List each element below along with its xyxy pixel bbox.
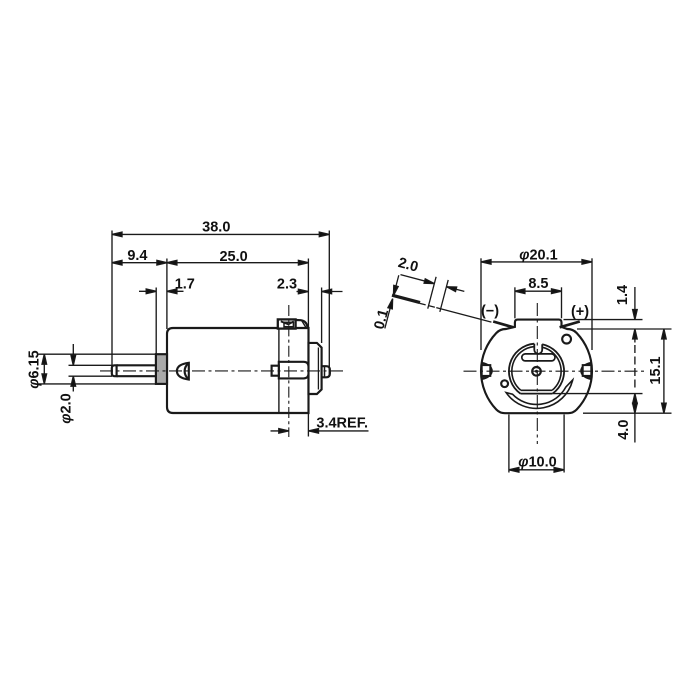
svg-text:1.7: 1.7 [175,277,195,293]
motor can body [167,328,309,413]
shaft [117,364,156,366]
ext line ring flat right [554,393,643,395]
bearing ring inner flat chord [521,389,552,391]
ext line can front face [166,259,168,330]
terminal support chamfer line [302,320,307,327]
motor end outline (flat-sided can with top plateau) [481,320,592,414]
shaft dome pip inside can [177,363,189,380]
vertical centerline [536,303,538,444]
dim phi2.0 lower [72,376,74,391]
left tab hole [482,365,491,376]
dim 3.4REF right tail [309,430,369,432]
dim 2.0 right tail [446,287,464,292]
terminal centerline vertical [288,305,290,437]
ext line phi10 left [508,415,510,473]
label 0.1 [372,308,393,332]
dim 15.1 [663,329,665,413]
rear bearing boss [279,362,309,379]
dim line 25.0 [167,262,309,264]
keyway slot at ring top [534,344,542,354]
ext line can rear face lower [307,414,309,437]
ext line shaft tip [111,231,113,377]
svg-text:8.5: 8.5 [528,276,548,292]
dim line 9.4 [112,262,167,264]
bearing ring outer circle right arc [542,344,564,393]
ext line can rear face [307,259,309,329]
tick 1 [428,277,436,309]
terminal chevron [281,321,294,324]
svg-text:2.3: 2.3 [277,277,297,293]
bottom vent arc band [506,380,573,409]
dim phi6.15 vertical [43,354,45,384]
boss stub [272,366,279,376]
terminal edge thick segment [392,295,420,302]
ext line rear pip tip [328,231,330,378]
dim 0.1 upper [393,275,398,295]
terminal (+) stroke [560,322,580,328]
svg-text:φ20.1: φ20.1 [519,247,557,263]
ext line bushing bottom [39,383,156,385]
left tab inner arc [482,365,491,377]
dim 3.4REF left tail [271,430,289,432]
right tab hole [583,365,592,376]
ext line 8.5 right [561,287,563,318]
right tab outer arc [581,363,591,379]
bearing ring inner circle left arc [512,347,534,391]
ext line shoulder right [577,328,672,330]
dim line phi10 [509,469,564,471]
bearing ring inner circle right arc [542,347,561,390]
ext line bottom flat right [583,412,672,414]
ext line phi20.1 left [480,258,482,350]
ext line plateau top right [564,319,643,321]
ext line shaft top [69,364,113,366]
dim line 8.5 [515,290,562,292]
svg-text:25.0: 25.0 [219,249,247,265]
terminal slot inner [284,322,293,326]
svg-text:φ6.15: φ6.15 [27,350,43,388]
dim 1.4 upper tail [634,287,636,320]
ext line bushing top [39,353,156,355]
terminal support shoulder [296,320,308,328]
dim 2.3 right tail [322,291,343,293]
svg-text:15.1: 15.1 [648,356,664,384]
ext line shaft bottom [69,375,113,377]
terminal thickness callout (2.0 / 0.1), rotated 14.7deg [372,253,502,357]
end cap junction line [278,329,280,413]
dim 1.7 left tail [139,290,156,292]
horizontal centerline [464,370,647,372]
leader line to terminal [436,308,491,322]
svg-text:9.4: 9.4 [127,248,147,264]
end cap inner edge line [317,348,319,390]
vent slot stadium [522,354,555,361]
ext line bushing face [155,288,157,355]
bearing bushing [156,354,167,384]
plastic end cap [309,343,322,394]
shaft tip [112,365,117,376]
ext line 8.5 left [514,287,516,318]
small hole top right [562,335,571,344]
dim 4.0 [634,394,636,443]
bearing ring outer circle left arc [509,344,534,394]
svg-text:1.4: 1.4 [615,285,631,305]
dim 2.0 left tail [400,275,434,284]
rear shaft pip [322,366,330,377]
left tab outer arc [482,363,492,379]
ext line phi10 right [563,415,565,473]
bearing ring outer flat chord [520,393,552,395]
shaft center dot [535,370,538,373]
dim phi2.0 upper [72,344,74,365]
rear pip chamfer line [324,366,326,377]
terminal edge dashed continuation [420,303,436,307]
terminal block on top of cap [278,319,296,328]
svg-text:38.0: 38.0 [202,220,230,236]
svg-text:(−): (−) [481,304,499,320]
dim line 38.0 [112,233,329,235]
horizontal centerline of side view [100,370,345,372]
svg-text:φ10.0: φ10.0 [518,454,556,470]
svg-text:(+): (+) [571,304,589,320]
ext line phi20.1 right [591,258,593,350]
small hole bottom left [501,380,508,387]
svg-text:3.4REF.: 3.4REF. [316,416,368,432]
construction dash line [634,345,636,390]
tick 2 [440,280,448,312]
dim 1.7 right tail [167,290,184,292]
dim 2.3 left tail [297,291,309,293]
dim line phi20.1 [481,261,592,263]
svg-text:4.0: 4.0 [616,420,632,440]
dim 0.1 lower [385,299,393,329]
dim 1.4 lower tail [634,329,636,343]
ext line cap face [321,288,323,344]
shaft center circle [532,367,541,376]
right tab inner arc [582,365,591,377]
svg-text:φ2.0: φ2.0 [58,393,74,423]
label 2.0 [396,255,420,276]
terminal (-) stroke [493,322,513,328]
